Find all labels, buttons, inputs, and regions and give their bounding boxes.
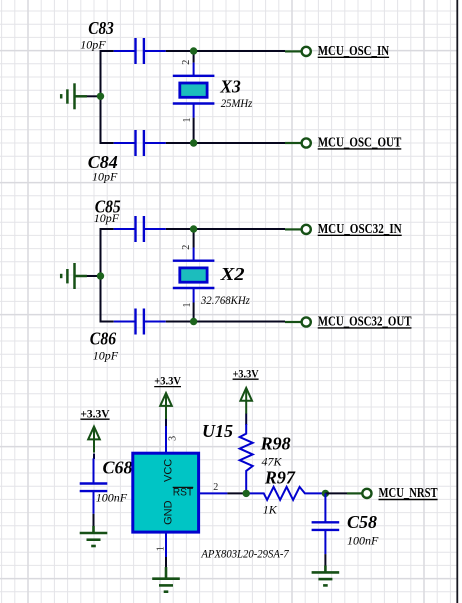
- wire to ground 2: [86, 275, 100, 277]
- svg-text:2: 2: [181, 245, 192, 250]
- svg-text:MCU_OSC_OUT: MCU_OSC_OUT: [318, 135, 402, 150]
- ground GND5 (C58): [312, 566, 340, 586]
- ground GND3 (C68): [80, 526, 108, 546]
- svg-text:100nF: 100nF: [347, 533, 379, 547]
- wire C84 to MCU_OSC_OUT: [166, 142, 285, 144]
- svg-text:C68: C68: [103, 458, 133, 478]
- svg-text:R98: R98: [260, 434, 291, 454]
- ground GND4 (U15): [152, 567, 180, 592]
- svg-text:X2: X2: [219, 264, 244, 284]
- wire C83 left: [101, 50, 114, 52]
- wire C84 left: [101, 142, 114, 144]
- svg-text:2: 2: [213, 482, 218, 493]
- wire X2 pin1 net: [193, 303, 195, 322]
- wire X2 pin2 net: [193, 229, 195, 248]
- wire to ground: [86, 95, 100, 97]
- junction node MCU_OSC_OUT: [190, 139, 197, 146]
- wire U15 GND to ground: [165, 557, 167, 568]
- svg-text:+3.3V: +3.3V: [154, 374, 181, 388]
- wire power to U15 VCC: [165, 419, 167, 427]
- wire to MCU_NRST port: [325, 492, 347, 494]
- resistor R98: [240, 424, 253, 491]
- wire C83 to MCU_OSC_IN: [166, 50, 285, 52]
- power label +3.3V (C68): [80, 406, 110, 420]
- port MCU_OSC32_OUT: [285, 314, 412, 329]
- wire X3 pin2 net: [193, 51, 195, 63]
- svg-text:MCU_OSC32_IN: MCU_OSC32_IN: [318, 221, 402, 236]
- wire C85 left: [101, 228, 114, 230]
- svg-text:R97: R97: [264, 467, 296, 487]
- svg-text:U15: U15: [202, 421, 233, 441]
- svg-text:C58: C58: [347, 512, 377, 532]
- svg-text:GND: GND: [162, 500, 174, 525]
- svg-text:1: 1: [182, 118, 193, 123]
- wire C85 to MCU_OSC32_IN: [166, 228, 285, 230]
- junction node MCU_OSC_IN: [190, 47, 197, 54]
- wire X3 pin1 net: [193, 118, 195, 143]
- op-amp U15 APX803 supervisor IC body: [133, 426, 228, 557]
- power +3.3V arrow (R98): [240, 388, 252, 414]
- ground GND1: [61, 83, 87, 109]
- svg-text:2: 2: [181, 60, 192, 65]
- crystal X3: [173, 63, 215, 118]
- svg-text:MCU_NRST: MCU_NRST: [379, 485, 438, 500]
- svg-text:10pF: 10pF: [80, 38, 106, 52]
- wire left vertical net: [100, 50, 102, 144]
- svg-text:+3.3V: +3.3V: [80, 406, 110, 420]
- svg-text:25MHz: 25MHz: [221, 96, 253, 110]
- svg-text:10pF: 10pF: [92, 170, 118, 184]
- svg-text:X3: X3: [219, 76, 240, 96]
- junction node left 2: [97, 272, 104, 279]
- svg-text:100nF: 100nF: [96, 490, 128, 504]
- wire C58 to ground: [324, 554, 326, 565]
- wire U15 RST to node: [227, 492, 246, 494]
- svg-text:MCU_OSC32_OUT: MCU_OSC32_OUT: [318, 314, 412, 329]
- capacitor C68: [80, 458, 108, 513]
- svg-text:+3.3V: +3.3V: [233, 366, 259, 380]
- svg-text:47K: 47K: [262, 454, 283, 468]
- junction node left 1: [97, 93, 104, 100]
- junction node RST/R98/R97: [243, 490, 250, 497]
- capacitor C86: [114, 309, 166, 335]
- svg-text:1K: 1K: [263, 502, 278, 516]
- svg-text:10pF: 10pF: [93, 349, 119, 363]
- svg-text:RST: RST: [173, 487, 194, 499]
- wire left vertical net 2: [100, 228, 102, 323]
- ground GND2: [61, 263, 87, 289]
- svg-text:3: 3: [168, 436, 179, 441]
- capacitor C58: [312, 493, 340, 554]
- power +3.3V arrow (U15): [160, 393, 172, 419]
- junction node R97/C58/port: [322, 490, 329, 497]
- svg-text:1: 1: [156, 546, 167, 551]
- port MCU_OSC32_IN: [285, 221, 402, 236]
- wire C68 to ground: [93, 514, 95, 526]
- junction node MCU_OSC32_OUT: [190, 318, 197, 325]
- U15 pin name RST (active low): [173, 487, 194, 499]
- svg-text:C83: C83: [88, 18, 114, 38]
- power label +3.3V (U15): [154, 374, 181, 388]
- svg-text:C86: C86: [90, 329, 116, 349]
- junction node MCU_OSC32_IN: [190, 225, 197, 232]
- power +3.3V arrow (C68): [88, 427, 100, 453]
- wire C86 left: [101, 321, 114, 323]
- svg-text:MCU_OSC_IN: MCU_OSC_IN: [318, 43, 390, 58]
- svg-text:VCC: VCC: [162, 459, 174, 482]
- svg-text:32.768KHz: 32.768KHz: [200, 293, 250, 307]
- wire C86 to MCU_OSC32_OUT: [166, 321, 285, 323]
- capacitor C85: [114, 216, 166, 242]
- crystal X2: [173, 248, 215, 303]
- svg-text:10pF: 10pF: [94, 211, 120, 225]
- svg-text:APX803L20-29SA-7: APX803L20-29SA-7: [201, 547, 290, 561]
- power label +3.3V (R98): [233, 366, 259, 380]
- capacitor C84: [114, 130, 166, 156]
- port MCU_NRST: [347, 485, 438, 500]
- capacitor C83: [114, 38, 166, 64]
- wire power to C68: [93, 454, 95, 460]
- port MCU_OSC_OUT: [285, 135, 401, 150]
- port MCU_OSC_IN: [285, 43, 389, 58]
- svg-text:1: 1: [182, 303, 193, 308]
- resistor R97: [246, 487, 325, 500]
- wire power to R98: [245, 414, 247, 425]
